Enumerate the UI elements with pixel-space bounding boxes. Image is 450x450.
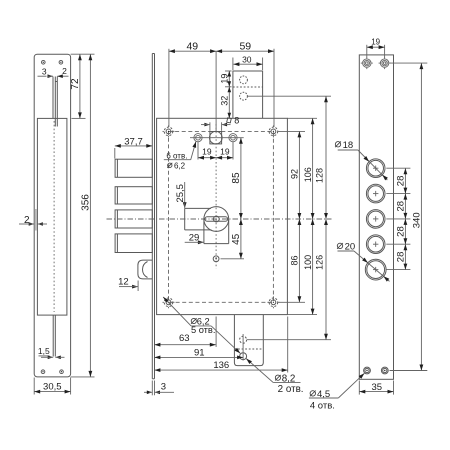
svg-text:2 отв.: 2 отв.: [278, 384, 304, 395]
svg-text:19: 19: [202, 147, 212, 157]
dimension 30,5: [33, 378, 35, 395]
dimension 37,7: [114, 148, 116, 159]
dimension 106: [312, 118, 314, 219]
follower circle: [210, 131, 223, 144]
strike plate bottom screw hole left: [41, 370, 45, 374]
top bracket outline: [233, 71, 263, 118]
cylinder cam slot: [205, 217, 228, 221]
outer plate hole 4 d18: [366, 235, 385, 254]
dimension 28 #3: [404, 219, 406, 244]
svg-text:356: 356: [81, 194, 92, 211]
svg-text:37,7: 37,7: [124, 136, 143, 147]
dimension 49: [169, 50, 216, 52]
svg-text:63: 63: [179, 333, 190, 344]
outer plate outline: [359, 55, 393, 379]
svg-text:28: 28: [396, 201, 407, 212]
outer plate bottom hole right: [381, 367, 388, 374]
svg-text:19: 19: [220, 74, 230, 84]
strike plate top slot line b: [54, 77, 56, 127]
extension from bracket hole 2: [247, 95, 331, 97]
dimension 28 #2: [404, 194, 406, 219]
dimension 63: [215, 317, 217, 347]
dimension 32 (bracket): [228, 87, 230, 119]
bottom bracket outline: [234, 315, 263, 366]
outer plate hole 2 d18: [366, 184, 385, 203]
horizontal centerline: [107, 218, 332, 220]
label 8,2 2 otv: [275, 375, 280, 380]
svg-text:49: 49: [186, 40, 198, 52]
outer plate hole 1 d18: [366, 159, 385, 178]
svg-text:4 отв.: 4 отв.: [310, 400, 335, 411]
svg-text:6,2: 6,2: [174, 162, 186, 171]
svg-text:3: 3: [161, 382, 166, 393]
dimension 29: [185, 241, 198, 243]
dimension 100: [312, 219, 314, 315]
svg-text:86: 86: [290, 255, 300, 265]
extension line plate bottom: [71, 376, 95, 378]
dimension 12 (latch): [137, 281, 139, 292]
strike plate bottom screw hole right: [60, 370, 64, 374]
dimension 85: [240, 138, 242, 219]
extension from hole: [386, 167, 410, 169]
svg-text:128: 128: [315, 168, 325, 183]
extension top hole to 340: [390, 62, 428, 64]
extension line 59 right: [273, 49, 275, 127]
body bottom-right screw hole: [271, 300, 276, 305]
svg-text:30: 30: [242, 54, 252, 64]
body bottom-left screw hole: [166, 300, 171, 305]
lock body outline: [157, 118, 288, 314]
svg-text:12: 12: [118, 277, 129, 288]
bottom bracket bend line: [234, 348, 263, 350]
hole row line: [190, 137, 244, 139]
extension from hole: [386, 269, 410, 271]
extension from hole: [386, 243, 410, 245]
label 6,2 5 otv: [191, 318, 196, 323]
svg-text:18: 18: [343, 140, 354, 151]
svg-text:136: 136: [213, 360, 229, 371]
extension from fixing hole: [221, 258, 245, 260]
svg-text:35: 35: [372, 382, 383, 393]
svg-text:8: 8: [234, 115, 239, 125]
svg-text:100: 100: [303, 255, 313, 270]
svg-text:45: 45: [231, 233, 242, 245]
dimension 126: [325, 219, 327, 340]
dimension 72: [79, 54, 81, 118]
dimension 91: [154, 356, 243, 358]
vertical centerline: [215, 124, 217, 269]
follower square 8mm: [210, 132, 222, 144]
bottom bracket hole 8,2: [240, 353, 247, 360]
outer plate hole 3 d18: [366, 210, 385, 229]
dimension 28 #4: [404, 244, 406, 269]
screw holes dashed rectangle: [169, 131, 274, 302]
outer plate top hole right: [380, 59, 388, 67]
deadbolt 4: [115, 234, 152, 253]
right 6,2 hole: [231, 135, 236, 140]
svg-text:19: 19: [371, 38, 380, 47]
label diameter 20: [337, 243, 342, 248]
dimension 136: [287, 317, 289, 373]
label diameter 18: [335, 142, 340, 147]
svg-text:106: 106: [303, 167, 313, 182]
dimension 45: [240, 219, 242, 259]
deadbolt 2: [115, 187, 152, 204]
svg-text:32: 32: [220, 96, 230, 106]
strike plate top screw hole right: [59, 61, 63, 65]
dimension 356: [89, 54, 91, 377]
top slot tick: [55, 81, 57, 83]
label diameter 4,5 4 otv: [310, 391, 315, 396]
outer plate top hole left: [363, 59, 371, 67]
strike plate window cutout: [37, 118, 67, 315]
extension from hole: [386, 218, 410, 220]
svg-text:59: 59: [239, 40, 251, 52]
cylinder lower recess: [203, 220, 205, 244]
dimension 340: [420, 63, 422, 370]
dimension 59: [216, 50, 274, 52]
left strike plate outline: [34, 54, 70, 377]
outer plate bottom hole left: [364, 367, 371, 374]
svg-text:25,5: 25,5: [175, 184, 186, 203]
dimension 128: [325, 96, 327, 219]
extension bottom hole to 340: [390, 370, 428, 372]
svg-text:126: 126: [315, 255, 325, 270]
dimension 86: [298, 219, 300, 302]
extension top-right hole: [279, 130, 305, 132]
dimension 19 (outer plate top): [366, 45, 368, 58]
extension line window top: [72, 117, 86, 119]
extension from hole: [386, 193, 410, 195]
body top-right screw hole: [271, 129, 276, 134]
bottom bracket hole centerline: [242, 334, 244, 361]
svg-text:1,5: 1,5: [38, 346, 50, 356]
strike plate top screw hole left: [42, 61, 46, 65]
cylinder hole circle: [204, 207, 229, 232]
svg-text:29: 29: [189, 233, 200, 244]
top bracket bend line: [233, 86, 263, 88]
svg-text:6 отв.: 6 отв.: [166, 151, 187, 160]
dimension 19 (bracket): [225, 70, 232, 72]
svg-text:30,5: 30,5: [43, 382, 62, 393]
deadbolt 1: [115, 159, 152, 177]
top bracket hole 2: [240, 92, 248, 100]
svg-text:85: 85: [231, 172, 242, 184]
strike plate window centerline: [53, 121, 55, 312]
dimension 28 #1: [404, 168, 406, 193]
svg-text:28: 28: [396, 252, 407, 263]
strike plate bottom tab: [52, 315, 54, 356]
svg-text:91: 91: [194, 347, 205, 358]
svg-text:340: 340: [412, 212, 423, 228]
extension bottom-right hole: [279, 301, 305, 303]
section shading on plate edge: [35, 209, 37, 231]
strike plate top slot line c: [56, 77, 58, 127]
extension line plate top: [71, 53, 95, 55]
extension line 49/59 center: [215, 51, 217, 131]
svg-text:19: 19: [220, 147, 230, 157]
top bracket hole 1: [240, 76, 248, 84]
dimension square 8 (follower): [209, 122, 211, 131]
svg-text:28: 28: [396, 176, 407, 187]
svg-text:2: 2: [62, 66, 67, 76]
lock faceplate edge view: [151, 54, 153, 379]
cylinder left recess: [184, 208, 186, 230]
dimension 92: [298, 131, 300, 219]
dimension 35: [358, 381, 360, 395]
svg-text:92: 92: [290, 169, 300, 179]
extension body top right: [287, 117, 317, 119]
svg-text:72: 72: [70, 78, 81, 90]
left 6,2 hole: [196, 135, 201, 140]
deadbolt 3: [115, 210, 152, 228]
extension line 49 left: [168, 49, 170, 127]
fixing screw hole below cylinder: [213, 256, 219, 262]
dimension 3 (faceplate thickness): [151, 381, 153, 396]
extension from dashed hole: [247, 339, 331, 341]
extension body bottom right: [287, 314, 317, 316]
svg-text:28: 28: [396, 226, 407, 237]
dimension 30 (bracket): [232, 58, 234, 71]
dimension 19 19 (follower holes): [197, 142, 199, 160]
svg-text:3: 3: [42, 66, 47, 76]
body top-left screw hole: [166, 129, 171, 134]
latch bolt: [138, 260, 152, 279]
outer plate hole 5 d20: [365, 259, 386, 280]
strike plate top slot line a: [52, 77, 54, 119]
bottom bracket dashed hole: [240, 336, 247, 343]
dimension 25,5: [184, 182, 186, 203]
